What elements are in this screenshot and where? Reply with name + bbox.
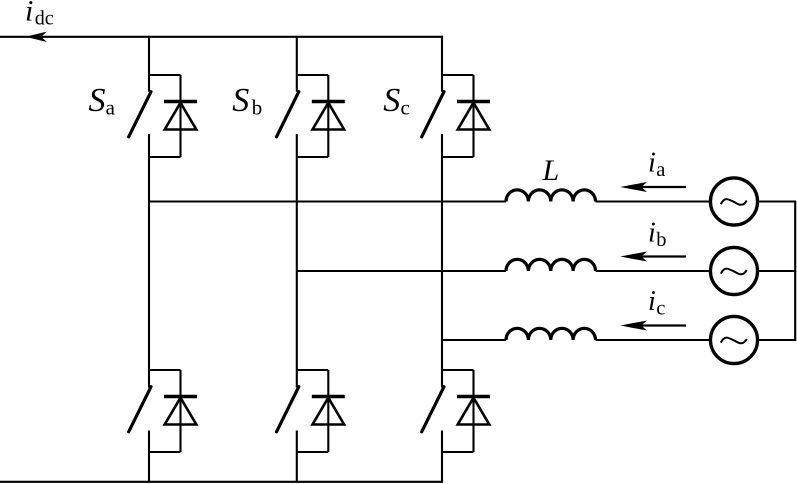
svg-text:b: b: [252, 96, 262, 120]
wire: bottom DC bus (negative rail): [0, 481, 443, 483]
arrow: i_a current direction (points left): [620, 182, 686, 192]
label i_a: [648, 148, 665, 182]
wire: phase-c leg, lower switch bottom to bottom rail: [441, 431, 443, 482]
label Sa (upper switch designator): [89, 82, 116, 120]
wire: phase-a leg, lower switch bottom to bottom rail: [148, 431, 150, 482]
inductor L (phase a), 4 arcs: [506, 190, 596, 202]
wire: phase-b leg, mid section (upper switch bottom to lower switch contact): [296, 134, 298, 388]
wire: phase-c leg, top rail to upper switch contact: [441, 36, 443, 92]
diode Sc (upper, phase c): cathode bar: [457, 100, 490, 103]
diode lower switch, phase a: cathode bar: [164, 395, 197, 398]
label Sc (upper switch designator): [383, 82, 410, 120]
wire: lower switch, phase c diode lead (runs through symbol): [472, 370, 474, 452]
label i_dc: [25, 0, 54, 29]
wire: phase-c leg, mid section (upper switch bottom to lower switch contact): [441, 134, 443, 388]
arrow: i_b current direction (points left): [620, 252, 686, 262]
inductor L (phase c), 4 arcs: [506, 328, 596, 340]
wire: Sa (upper, phase a) diode lead (runs through symbol): [179, 75, 181, 157]
svg-text:i: i: [648, 217, 656, 248]
wire: phase b line, inductor to source: [596, 270, 710, 272]
switch lower switch, phase a: blade (slash): [129, 387, 151, 432]
wire: lower switch, phase a top branch: [149, 369, 181, 371]
wire: Sb (upper, phase b) diode lead (runs through symbol): [327, 75, 329, 157]
switch lower switch, phase c: blade (slash): [422, 387, 444, 432]
diode lower switch, phase c: triangle (anode, pointing up): [458, 398, 490, 425]
wire: Sa (upper, phase a) bottom branch: [149, 156, 181, 158]
svg-text:S: S: [232, 82, 249, 119]
label i_b: [648, 217, 667, 251]
wire: phase c line, bridge leg to inductor: [442, 339, 506, 341]
arrow: i_dc current direction (points left): [26, 32, 47, 42]
wire: source b to neutral bus: [758, 270, 797, 272]
wire: Sb (upper, phase b) top branch: [297, 74, 329, 76]
svg-text:i: i: [25, 0, 33, 28]
wire: phase c line, inductor to source: [596, 339, 710, 341]
wire: phase-b leg, top rail to upper switch contact: [296, 36, 298, 92]
wire: phase-a leg, mid section (upper switch bottom to lower switch contact): [148, 134, 150, 388]
svg-text:i: i: [648, 148, 656, 179]
label i_c: [648, 286, 665, 320]
diode Sb (upper, phase b): triangle (anode, pointing up): [313, 103, 345, 130]
svg-text:a: a: [656, 159, 665, 181]
label Sb (upper switch designator): [232, 82, 262, 120]
wire: phase b line, bridge leg to inductor: [297, 270, 506, 272]
wire: top DC bus (positive rail): [0, 36, 443, 38]
diode lower switch, phase b: cathode bar: [312, 395, 345, 398]
AC source, phase b (circle with sine): [710, 247, 757, 294]
diode Sc (upper, phase c): triangle (anode, pointing up): [458, 103, 490, 130]
switch Sc (upper, phase c): blade (slash): [422, 92, 444, 137]
svg-text:a: a: [106, 96, 116, 120]
diode lower switch, phase b: triangle (anode, pointing up): [313, 398, 345, 425]
wire: phase a line, bridge leg to inductor: [149, 200, 506, 202]
svg-text:b: b: [656, 229, 666, 251]
svg-text:c: c: [656, 298, 665, 320]
wire: Sc (upper, phase c) bottom branch: [442, 156, 474, 158]
wire: lower switch, phase b diode lead (runs through symbol): [327, 370, 329, 452]
svg-text:L: L: [542, 154, 560, 187]
switch Sa (upper, phase a): blade (slash): [129, 92, 151, 137]
wire: lower switch, phase b top branch: [297, 369, 329, 371]
arrow: i_c current direction (points left): [620, 321, 686, 331]
diode lower switch, phase c: cathode bar: [457, 395, 490, 398]
svg-text:S: S: [383, 82, 400, 119]
svg-text:dc: dc: [35, 7, 54, 29]
diode Sb (upper, phase b): cathode bar: [312, 100, 345, 103]
inductor L (phase b), 4 arcs: [506, 259, 596, 271]
wire: lower switch, phase c top branch: [442, 369, 474, 371]
wire: right neutral bus joining the three sources: [794, 201, 796, 340]
wire: lower switch, phase a diode lead (runs through symbol): [179, 370, 181, 452]
wire: Sb (upper, phase b) bottom branch: [297, 156, 329, 158]
wire: Sc (upper, phase c) top branch: [442, 74, 474, 76]
wire: Sa (upper, phase a) top branch: [149, 74, 181, 76]
wire: phase-b leg, lower switch bottom to bottom rail: [296, 431, 298, 482]
wire: phase a line, inductor to source: [596, 200, 710, 202]
switch Sb (upper, phase b): blade (slash): [277, 92, 299, 137]
wire: lower switch, phase a bottom branch: [149, 451, 181, 453]
AC source, phase a (circle with sine): [710, 178, 757, 225]
diode Sa (upper, phase a): cathode bar: [164, 100, 197, 103]
switch lower switch, phase b: blade (slash): [277, 387, 299, 432]
wire: Sc (upper, phase c) diode lead (runs through symbol): [472, 75, 474, 157]
svg-text:S: S: [89, 82, 106, 119]
diode Sa (upper, phase a): triangle (anode, pointing up): [165, 103, 197, 130]
svg-text:i: i: [648, 286, 656, 317]
AC source, phase c (circle with sine): [710, 316, 757, 363]
svg-text:c: c: [401, 96, 410, 120]
wire: lower switch, phase b bottom branch: [297, 451, 329, 453]
wire: phase-a leg, top rail to upper switch contact: [148, 36, 150, 92]
wire: source a to neutral bus: [758, 200, 797, 202]
wire: lower switch, phase c bottom branch: [442, 451, 474, 453]
diode lower switch, phase a: triangle (anode, pointing up): [165, 398, 197, 425]
wire: source c to neutral bus: [758, 339, 797, 341]
